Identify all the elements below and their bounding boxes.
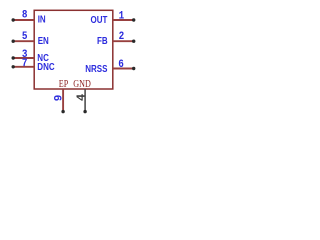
svg-text:5: 5	[22, 32, 28, 44]
pin 3 NC wire	[13, 57, 34, 59]
svg-text:EP: EP	[59, 79, 68, 90]
svg-text:FB: FB	[97, 35, 108, 46]
pin 8 IN wire	[13, 19, 34, 21]
svg-text:7: 7	[22, 59, 28, 71]
pin 6 NRSS wire	[113, 68, 134, 70]
pin 2 end dot	[132, 40, 135, 43]
svg-text:4: 4	[75, 94, 89, 101]
pin 7 DNC wire	[13, 66, 34, 68]
pin 5 EN wire	[13, 40, 34, 42]
pin 1 OUT wire	[113, 19, 134, 21]
pin 6 end dot	[132, 67, 135, 70]
IC body U1	[34, 10, 113, 89]
svg-text:8: 8	[22, 10, 28, 22]
pin 2 FB wire	[113, 40, 134, 42]
pin 4 GND wire (bottom, gray)	[84, 89, 86, 112]
svg-text:NRSS: NRSS	[85, 63, 107, 74]
svg-text:GND: GND	[73, 79, 91, 90]
svg-text:OUT: OUT	[91, 14, 108, 25]
pin 9 end dot	[61, 110, 64, 113]
svg-text:9: 9	[54, 95, 66, 102]
pin 8 end dot	[12, 18, 15, 21]
svg-text:EN: EN	[38, 35, 49, 46]
svg-text:2: 2	[119, 31, 125, 43]
pin 4 end dot	[83, 110, 86, 113]
pin 5 end dot	[12, 40, 15, 43]
pin 9 EP wire (bottom)	[62, 89, 64, 112]
svg-text:DNC: DNC	[37, 61, 55, 72]
svg-text:IN: IN	[38, 14, 46, 25]
svg-text:1: 1	[119, 11, 125, 23]
pin 3 end dot	[12, 56, 15, 59]
pin 1 end dot	[132, 18, 135, 21]
svg-text:6: 6	[118, 59, 124, 71]
pin 7 end dot	[12, 65, 15, 68]
